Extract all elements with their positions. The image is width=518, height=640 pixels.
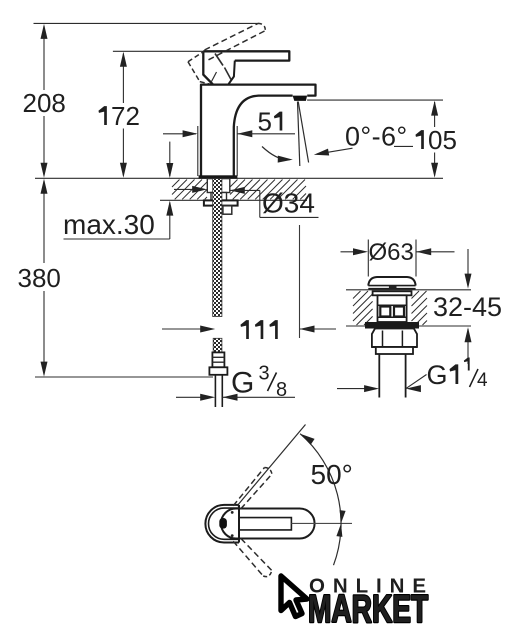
faucet body and spout outline	[201, 85, 316, 176]
drain pop-up cap (mushroom)	[368, 277, 415, 286]
washer plate under counter	[204, 200, 238, 205]
heel internal detail lines	[215, 54, 223, 66]
dimension 380 vertical line	[43, 181, 45, 263]
logo mouse cursor	[281, 576, 307, 617]
lever heel left edge	[203, 51, 213, 84]
countertop bottom line	[160, 199, 307, 201]
svg-text:MARKET: MARKET	[308, 588, 429, 631]
dimension 105 vertical line	[434, 102, 436, 127]
svg-text:208: 208	[23, 88, 66, 118]
dimension 111 line	[162, 328, 212, 330]
counter section at drain: top and bottom lines	[346, 289, 471, 291]
svg-text:380: 380	[18, 263, 61, 293]
plan view: screw dots	[231, 511, 234, 514]
hose fitting body	[212, 352, 224, 367]
mounting nut in counter hole	[207, 179, 230, 193]
drain body flange	[373, 291, 412, 295]
bottom reference line (380)	[35, 376, 213, 378]
drain body through counter	[378, 295, 407, 322]
svg-text:Ø34: Ø34	[262, 188, 315, 219]
dimension 51 spout line	[163, 133, 196, 135]
label 172	[98, 106, 106, 125]
arc arrowhead at 50deg line	[300, 434, 315, 445]
svg-text:0°-6°: 0°-6°	[345, 122, 408, 152]
plan view: base right edge	[238, 505, 240, 543]
label 111	[240, 320, 248, 339]
drain lock nut (hex)	[372, 329, 417, 348]
seal washer under counter	[365, 322, 419, 329]
drain tail pipe	[378, 354, 380, 398]
shank lower segment	[213, 338, 222, 352]
extension lines for diameter 63	[367, 240, 369, 277]
svg-text:32-45: 32-45	[433, 292, 502, 322]
plan view: logo mark on body	[219, 518, 227, 529]
dimension 208 vertical line	[43, 26, 45, 90]
top reference line (208 max height)	[34, 22, 259, 24]
counter hatching left of drain	[353, 291, 361, 299]
dimension diameter 63	[341, 251, 366, 253]
faucet base plate on counter	[199, 175, 238, 178]
countertop section hatching right of faucet	[230, 180, 238, 188]
svg-text:max.30: max.30	[63, 209, 155, 240]
50 degree swivel: solid upper line	[237, 425, 306, 507]
spout height reference line (105)	[307, 99, 443, 101]
aerator (black)	[293, 96, 308, 101]
dimension G3/8 arrows	[176, 396, 212, 398]
plan view centerline	[291, 522, 352, 524]
dashed lever swung down	[233, 541, 263, 576]
logo text MARKET	[308, 588, 429, 631]
svg-text:Ø63: Ø63	[369, 239, 414, 266]
svg-text:5: 5	[258, 107, 272, 137]
dimension 32-45 counter thickness	[467, 249, 469, 286]
hose hex nut	[209, 367, 227, 375]
dimension 172 vertical line	[122, 54, 124, 104]
dashed lever swung up	[233, 468, 264, 506]
faucet lever handle (solid, horizontal)	[203, 51, 289, 60]
water stream lines 0-6 deg	[298, 102, 300, 167]
lower fitting block	[223, 206, 232, 214]
arc arrowheads at centerline	[340, 510, 346, 523]
extension line from drain center	[299, 225, 301, 338]
plan view: lever (stadium)	[221, 509, 315, 539]
nut step	[376, 347, 413, 354]
nut collar	[211, 193, 227, 201]
extension lines for 51	[197, 126, 199, 176]
plan view: base inner wall	[209, 508, 240, 539]
spout underside with curve into body right edge	[234, 96, 293, 176]
svg-text:G: G	[427, 360, 448, 390]
plan view: faucet base outer D-shape	[205, 505, 239, 543]
reference line lever top (172)	[113, 50, 203, 52]
label 105	[415, 130, 423, 149]
arrow at left hole edge	[174, 188, 204, 190]
curved rotation arrow under stream	[262, 147, 290, 160]
svg-text:4: 4	[477, 370, 488, 391]
drain lateral holes	[380, 307, 390, 317]
svg-text:3: 3	[259, 363, 270, 385]
counter hatching right of drain	[412, 291, 420, 299]
plan view: lever slot	[239, 518, 291, 530]
lever heel right edge	[228, 61, 235, 85]
50 degree dimension arc	[300, 434, 341, 566]
flexible hose tube	[214, 375, 216, 407]
dimension max.30 arrows at counter thickness	[169, 142, 171, 176]
countertop top surface line	[35, 177, 443, 179]
countertop section hatching left of faucet	[172, 180, 180, 188]
svg-text:50°: 50°	[311, 459, 353, 490]
label G1 1/4 with leader	[337, 388, 376, 390]
svg-text:05: 05	[428, 125, 457, 155]
dashed raised lever position	[205, 23, 259, 50]
label diameter 34 with leader	[230, 187, 245, 194]
svg-text:72: 72	[111, 101, 140, 131]
dashed raised heel outline	[188, 52, 204, 62]
